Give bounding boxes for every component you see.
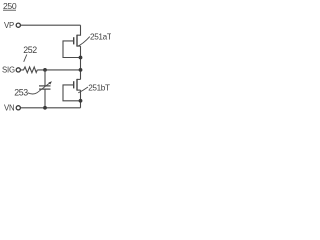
wire capacitor top lead — [44, 70, 46, 86]
wire source lead 251aT — [77, 45, 81, 47]
svg-text:251bT: 251bT — [88, 83, 110, 92]
transistor 251aT channel bar — [76, 35, 78, 47]
wire gate loop 251aT (gate to source) — [63, 41, 81, 58]
terminal VP — [4, 21, 20, 30]
wire source to VN rail — [80, 90, 82, 108]
wire capacitor bottom lead — [44, 89, 46, 108]
wire VP rail — [21, 24, 81, 26]
wire source lead 251bT — [77, 89, 81, 91]
capacitor 253 top plate — [39, 85, 51, 87]
transistor 251bT gate bar — [73, 81, 75, 88]
wire VN rail — [21, 107, 81, 109]
svg-text:SIG: SIG — [2, 65, 15, 74]
terminal VN — [4, 104, 20, 113]
variable capacitor arrow — [28, 81, 52, 94]
resistor 252 — [21, 67, 38, 73]
transistor 251bT channel bar — [76, 79, 78, 91]
svg-text:253: 253 — [14, 87, 28, 97]
svg-text:VN: VN — [4, 104, 14, 113]
junction dot SIG/capacitor — [43, 68, 47, 72]
junction dot SIG/midpoint — [79, 68, 83, 72]
figure label 250 — [3, 1, 17, 11]
capacitor 253 bottom plate — [39, 88, 51, 90]
svg-text:251aT: 251aT — [90, 32, 111, 41]
label 252 with leader — [23, 45, 37, 62]
wire spine between transistors — [80, 46, 82, 79]
junction dot gate loop 251aT — [79, 56, 83, 60]
wire SIG line to midpoint — [37, 69, 80, 71]
terminal SIG — [2, 65, 20, 74]
label 251aT with leader — [78, 32, 112, 46]
svg-text:252: 252 — [23, 45, 37, 55]
junction dot gate loop 251bT — [79, 99, 83, 103]
wire drain lead 251bT — [77, 78, 81, 80]
svg-text:VP: VP — [4, 21, 14, 30]
wire gate loop 251bT (gate to source) — [63, 85, 81, 101]
label 251bT with leader — [78, 83, 110, 93]
wire drain lead 251aT — [77, 25, 81, 35]
svg-text:250: 250 — [3, 1, 17, 11]
transistor 251aT gate bar — [73, 37, 75, 44]
junction dot capacitor/VN rail — [43, 106, 47, 110]
